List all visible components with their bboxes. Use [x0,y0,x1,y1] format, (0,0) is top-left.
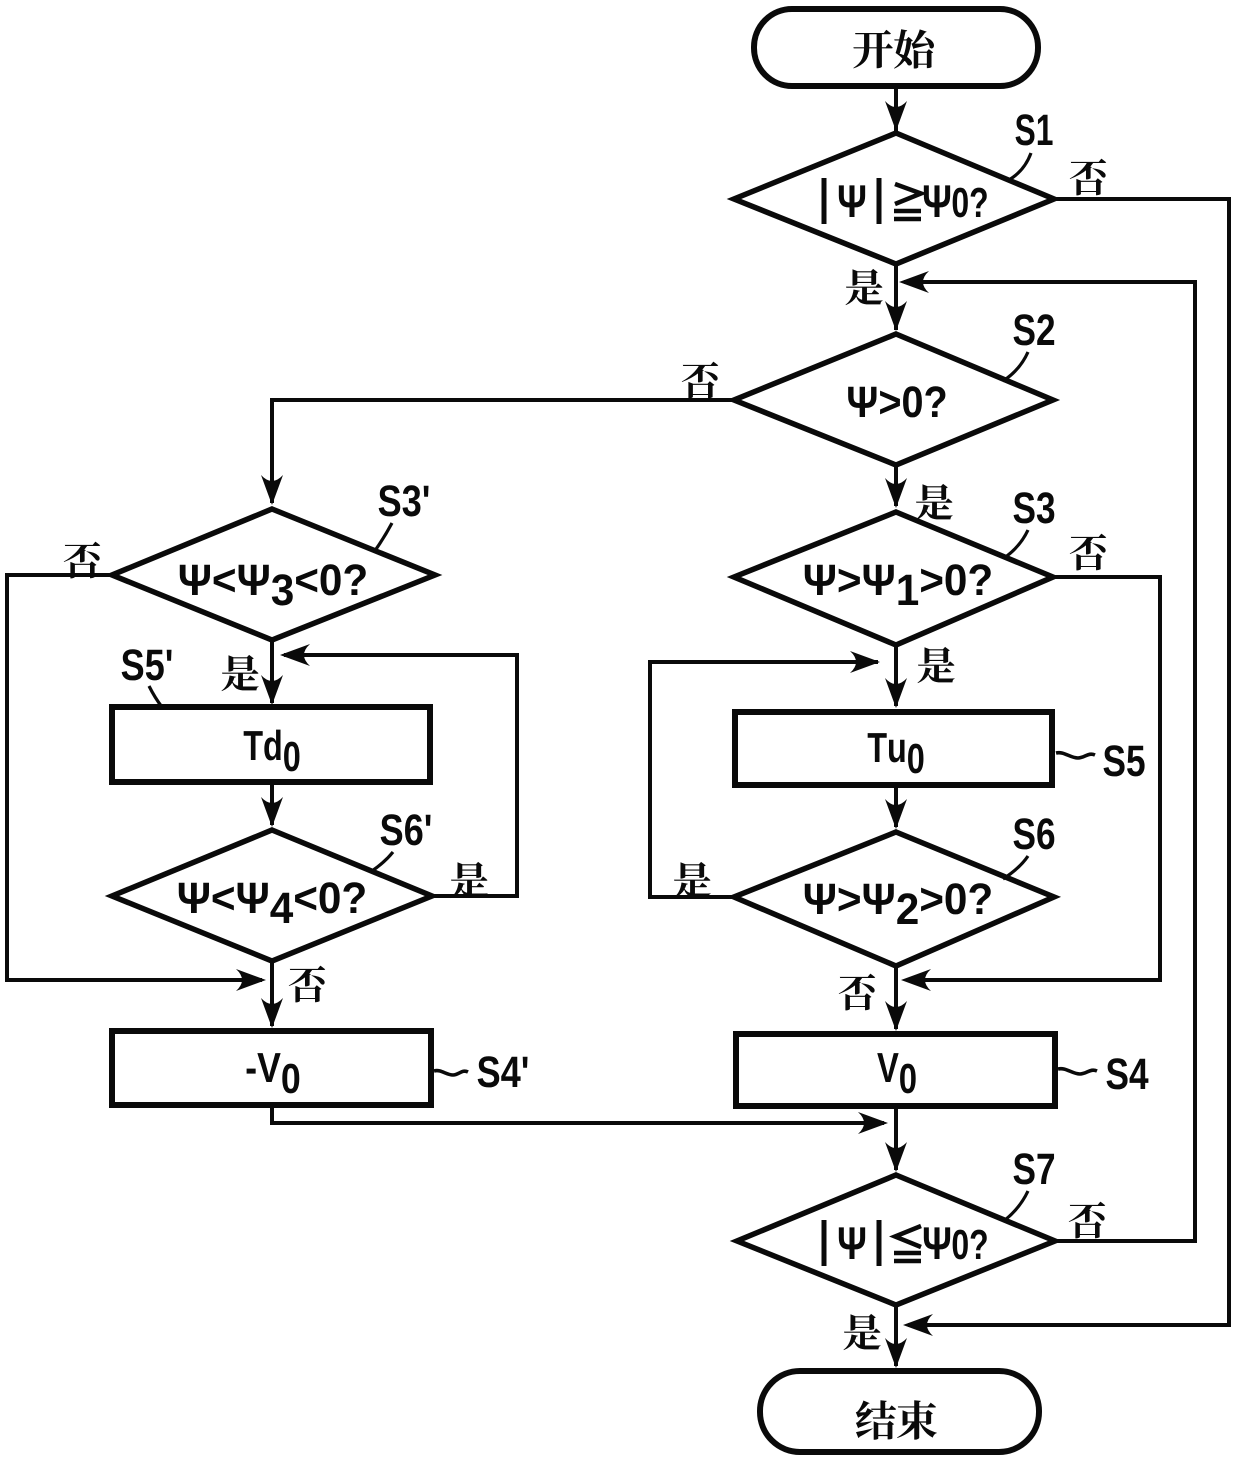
text no (S7 branch) [1069,1202,1105,1239]
wire: start terminal to S1 [894,84,898,131]
label S3 [1014,492,1055,523]
text yes (S2 branch) [916,484,953,520]
wire: S3-prime yes to Td0 box [270,640,274,703]
leader curve S3-prime [374,523,392,552]
arrowhead into S3 [885,478,907,508]
label S7 [1014,1153,1055,1184]
arrowhead into V0 box [885,1001,907,1031]
text yes (S3 branch) [918,647,955,683]
wire: Tu0 box to S6 [894,785,898,827]
decision S3 diamond [734,512,1053,645]
wire: V0 box to S7 [894,1106,898,1170]
arrowhead into junction below S6 [901,969,931,991]
S1 zero-q [953,188,987,218]
S1 psi-2 [924,185,950,217]
arrowhead into S6-prime [261,797,283,827]
wire: S2 no-branch to S3-prime [272,400,734,503]
arrowhead into Td0 box [261,675,283,705]
text kai (start) char 1 [853,30,893,69]
wire: S7 yes to end terminal [894,1305,898,1366]
V0 box text [877,1053,915,1093]
process box Td0 [112,707,430,782]
text shi (start) char 2 [894,29,934,68]
label S5-prime [122,649,172,680]
wire: S2 yes to S3 [894,465,898,506]
S7 psi-2 [924,1227,950,1259]
label S4 [1107,1058,1149,1089]
leader curve S7 [1005,1191,1028,1220]
S3 condition text [805,564,991,605]
S7 condition text [824,1220,987,1266]
leader curve S3 [1004,530,1028,558]
process box Tu0 [735,712,1052,785]
decision S3-prime diamond [112,509,435,640]
process box V0 [736,1034,1055,1106]
leader squiggle S5 [1056,753,1095,758]
label S4-prime [478,1056,528,1087]
arrowhead into S1 [885,101,907,131]
arrowhead into S2 [885,301,907,331]
arrowhead into junction above Tu0 [850,651,880,673]
S6 condition text [805,883,991,924]
wire: S3-prime no-branch down to junction below S6-prime [7,575,262,980]
leader squiggle S4-prime [434,1071,468,1075]
decision S6-prime diamond [112,830,432,961]
arrowhead into S7 [885,1142,907,1172]
arrowhead into wire above end terminal [903,1314,933,1336]
text no (S6-prime branch) [289,966,325,1003]
Tu0 box text [868,733,924,773]
decision S2 diamond [734,334,1053,465]
wire: S6-prime yes-loop back to junction above Td0 [284,655,517,896]
S6-prime condition text [179,882,365,923]
leader curve S6-prime [372,852,393,871]
text no (S6 branch) [839,974,875,1011]
text yes (S1 branch) [846,269,883,305]
leader curve S5-prime [149,686,162,707]
S3-prime condition text [180,564,366,605]
label S5 [1104,745,1145,776]
S2 condition text [848,386,945,417]
wire: S1 yes to S2 [894,264,898,330]
decision S6 diamond [734,832,1054,966]
label S6 [1014,818,1055,849]
label S1 [1016,114,1053,145]
arrowhead into junction below S1 [899,271,929,293]
text no (S2 branch) [682,362,718,399]
-V0 box text [247,1053,300,1093]
label S6-prime [381,814,431,845]
end terminal oval [760,1371,1039,1452]
wire: S6 yes-loop back to junction above Tu0 [650,662,878,897]
text no (S1 branch) [1070,159,1106,196]
arrowhead into -V0 box [261,998,283,1028]
arrowhead into junction below S6-prime [236,969,266,991]
wire: S7 no-branch up to junction below S1 [904,282,1195,1241]
arrowhead into junction above S7 [858,1112,888,1134]
decision S1 diamond [734,133,1054,264]
S7 psi-1 [839,1227,865,1259]
text yes (S6 branch) [674,862,711,898]
leader curve S2 [1003,352,1028,381]
text yes (S3-prime branch) [222,655,259,691]
text shu (end) char 2 [897,1400,937,1439]
start terminal oval [754,9,1038,86]
text no (S3-prime branch) [64,542,100,579]
wire: S1 no-branch right and down to final junction [908,199,1229,1325]
S1 psi-1 [839,185,865,217]
wire: S6 no to V0 box [894,966,898,1029]
wire: Td0 box to S6-prime [270,784,274,825]
leader curve S1 [1007,153,1031,181]
wire: S6-prime no to -V0 box [270,961,274,1026]
arrowhead into end terminal [885,1338,907,1368]
text yes (S6-prime branch) [451,862,488,898]
process box -V0 [112,1031,431,1105]
label S3-prime [379,485,429,516]
text yes (S7 branch) [844,1314,881,1350]
wire: S3 yes to Tu0 box [894,645,898,706]
S7 zero-q [953,1230,987,1260]
leader squiggle S4 [1058,1069,1097,1074]
decision S7 diamond [737,1175,1055,1305]
text jie (end) char 1 [856,1400,896,1439]
arrowhead into junction above Td0 [280,644,310,666]
wire: -V0 box to junction above S7 [272,1105,884,1123]
text no (S3 branch) [1070,534,1106,571]
arrowhead into Tu0 box [885,678,907,708]
label S2 [1014,314,1055,345]
arrowhead into S6 [885,799,907,829]
wire: S3 no-branch down to junction below S6 [907,577,1160,980]
Td0 box text [244,730,300,772]
S1 condition text [824,178,987,224]
leader curve S6 [1003,856,1028,879]
arrowhead into S3-prime [261,475,283,505]
